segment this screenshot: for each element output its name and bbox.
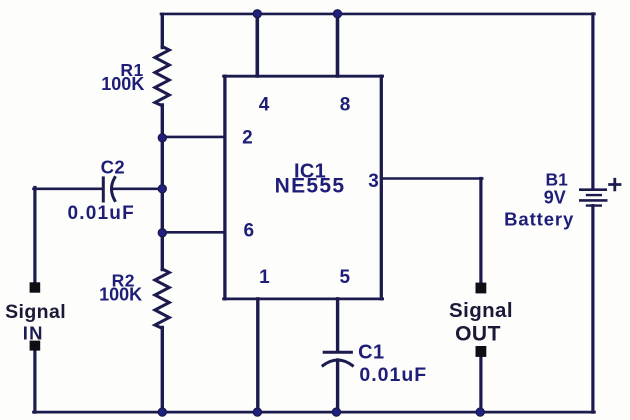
svg-text:C1: C1 xyxy=(358,342,384,364)
svg-text:8: 8 xyxy=(340,95,351,116)
terminal square signal in lower xyxy=(30,341,41,351)
wire pin 2 xyxy=(161,136,225,139)
wire pin 8 xyxy=(336,14,340,76)
wire pin 4 xyxy=(255,14,259,76)
svg-text:100K: 100K xyxy=(99,285,142,305)
battery B1 plate short 2 xyxy=(587,204,601,206)
wire signal out vertical xyxy=(479,179,482,284)
wire left rail top segment xyxy=(161,14,164,47)
svg-text:6: 6 xyxy=(244,220,255,241)
svg-text:2: 2 xyxy=(242,127,253,148)
svg-text:Battery: Battery xyxy=(504,208,574,229)
wire C2 left lead xyxy=(34,188,102,191)
battery plus sign xyxy=(610,179,620,190)
battery B1 plate long top xyxy=(580,188,605,191)
wire signal in lower xyxy=(33,350,36,412)
wire bottom rail xyxy=(34,411,595,414)
battery B1 plate long bottom xyxy=(580,199,606,202)
junction dot left rail C2 xyxy=(158,185,166,193)
svg-text:Signal: Signal xyxy=(449,299,513,322)
junction dot left rail pin2 xyxy=(158,134,166,142)
wire pin 5 lower (C1 to bottom rail) xyxy=(336,360,339,412)
wire pin 3 to signal out xyxy=(381,177,482,180)
capacitor C2 straight plate xyxy=(102,178,105,201)
junction dot top rail pin8 xyxy=(333,10,341,18)
terminal square signal in upper xyxy=(30,282,41,292)
wire left rail middle segment xyxy=(161,105,164,270)
wire battery branch lower xyxy=(591,206,594,413)
terminal square signal out upper xyxy=(476,283,487,294)
wire signal in upper xyxy=(33,188,36,283)
svg-text:100K: 100K xyxy=(101,74,144,94)
svg-text:NE555: NE555 xyxy=(275,174,346,197)
junction dot bottom rail pin5 xyxy=(332,408,340,416)
junction dot top rail pin4 xyxy=(253,10,261,18)
svg-text:1: 1 xyxy=(259,267,270,288)
battery B1 plate short 1 xyxy=(587,194,601,196)
capacitor C1 curved plate xyxy=(323,360,352,366)
svg-text:OUT: OUT xyxy=(455,323,501,346)
junction dot bottom rail pin1 xyxy=(253,408,261,416)
svg-text:Signal: Signal xyxy=(5,301,66,323)
capacitor C1 top plate xyxy=(324,351,351,354)
wire battery branch upper xyxy=(591,14,594,188)
junction dot bottom rail left xyxy=(158,408,166,416)
wire top rail xyxy=(161,13,594,16)
svg-text:4: 4 xyxy=(259,95,270,116)
svg-text:0.01uF: 0.01uF xyxy=(359,364,427,386)
svg-text:C2: C2 xyxy=(101,156,125,177)
svg-text:5: 5 xyxy=(340,267,351,288)
svg-text:9V: 9V xyxy=(544,188,566,208)
resistor R1 xyxy=(155,47,169,106)
IC U1 NE555 body xyxy=(224,75,383,78)
svg-text:B1: B1 xyxy=(546,170,569,190)
resistor R2 xyxy=(155,269,169,328)
svg-text:0.01uF: 0.01uF xyxy=(67,203,134,224)
capacitor C2 curved plate xyxy=(112,178,115,201)
wire left rail bottom segment xyxy=(161,328,164,413)
wire pin 5 upper xyxy=(336,299,339,351)
wire pin 1 xyxy=(256,299,259,412)
wire signal out lower xyxy=(479,357,482,413)
junction dot left rail pin6 xyxy=(158,229,166,237)
wire C2 right lead xyxy=(112,188,164,191)
terminal square signal out lower xyxy=(476,346,487,357)
junction dot bottom rail signal out xyxy=(476,408,484,416)
wire pin 6 xyxy=(161,231,225,234)
svg-text:3: 3 xyxy=(368,171,379,192)
svg-text:IN: IN xyxy=(23,322,44,343)
